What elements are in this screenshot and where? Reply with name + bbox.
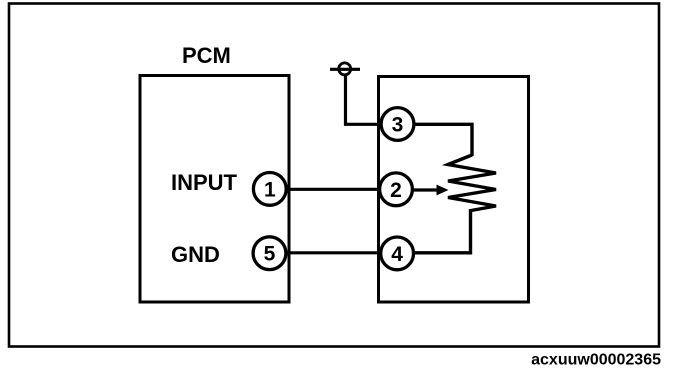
wire pin3 to resistor top bbox=[413, 124, 472, 156]
wire pin1 to pin2 bbox=[287, 188, 381, 191]
pin circle 5 bbox=[253, 237, 286, 270]
pin circle 3 bbox=[381, 108, 414, 141]
resistor R1 zigzag bbox=[448, 155, 496, 211]
svg-text:1: 1 bbox=[264, 178, 276, 201]
PCM box U1 bbox=[140, 76, 289, 303]
wiper arrow shaft from pin2 bbox=[411, 188, 438, 191]
svg-text:5: 5 bbox=[264, 243, 276, 266]
wire pin5 to pin4 bbox=[287, 251, 381, 254]
svg-text:PCM: PCM bbox=[182, 43, 231, 68]
svg-text:4: 4 bbox=[391, 243, 403, 266]
svg-text:acxuuw00002365: acxuuw00002365 bbox=[531, 352, 661, 369]
svg-text:3: 3 bbox=[392, 114, 404, 137]
sensor box bbox=[379, 77, 529, 303]
pin circle 4 bbox=[381, 237, 414, 270]
svg-text:2: 2 bbox=[390, 179, 402, 202]
pin circle 2 bbox=[380, 173, 413, 206]
svg-text:GND: GND bbox=[171, 242, 220, 267]
power feed symbol B+ circle bbox=[339, 63, 351, 75]
wire power feed down to pin3 bbox=[346, 76, 382, 125]
svg-text:INPUT: INPUT bbox=[171, 170, 238, 195]
pin circle 1 bbox=[253, 173, 286, 206]
power feed symbol B+ bar bbox=[330, 68, 360, 71]
wiper arrow head bbox=[437, 185, 449, 196]
wire resistor bottom to pin4 bbox=[414, 209, 471, 253]
